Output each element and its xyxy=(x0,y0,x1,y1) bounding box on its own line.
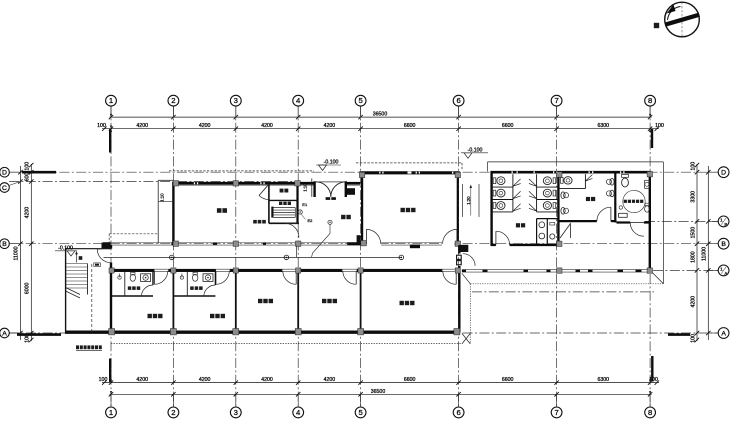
room label bgs2 xyxy=(322,299,326,303)
svg-text:100: 100 xyxy=(691,334,697,343)
south wing north wall solid segments xyxy=(111,269,154,272)
women entrance door xyxy=(496,231,510,245)
svg-text:3300: 3300 xyxy=(691,191,697,203)
accessible basin xyxy=(645,180,650,188)
entrance double door left leaf xyxy=(316,182,331,197)
west wall axis2 xyxy=(172,182,174,245)
svg-text:1: 1 xyxy=(109,408,113,417)
axis bubble B right xyxy=(708,243,718,245)
svg-text:4200: 4200 xyxy=(136,123,148,129)
women mop stalls walls xyxy=(537,218,559,220)
axis bubble 5 top xyxy=(360,106,362,117)
stair up arrow xyxy=(76,253,78,263)
axis 3 vertical xyxy=(235,106,237,407)
svg-text:3: 3 xyxy=(234,96,238,105)
floor drain room2 xyxy=(180,276,183,279)
accessible door xyxy=(630,223,644,237)
axis bubble 8 top xyxy=(649,106,651,117)
room label xiuxishi1 xyxy=(148,314,152,318)
office1 door xyxy=(283,271,296,284)
right dim segment line xyxy=(696,164,698,341)
axis bubble C left xyxy=(9,182,21,186)
svg-text:4200: 4200 xyxy=(691,296,697,308)
stair west wall xyxy=(65,248,67,333)
svg-text:D: D xyxy=(2,170,7,177)
women toilets right xyxy=(553,178,556,184)
entrance pier black xyxy=(347,188,355,195)
entrance double door right leaf xyxy=(331,182,346,197)
thick axis end bars xyxy=(22,171,56,174)
men urinals mid xyxy=(610,179,614,186)
svg-text:A: A xyxy=(2,330,7,337)
north arrow arc arrow xyxy=(668,7,681,21)
svg-text:3: 3 xyxy=(234,408,238,417)
washbasin room1 xyxy=(141,274,151,282)
roof corner diagonals xyxy=(651,272,663,284)
svg-text:100: 100 xyxy=(655,123,664,129)
accessible wc right xyxy=(645,203,649,205)
room label bei xyxy=(654,23,659,28)
men entrance door xyxy=(597,207,611,221)
svg-text:6600: 6600 xyxy=(502,123,514,129)
eave dashed line north wing right xyxy=(356,162,462,164)
svg-text:1:20: 1:20 xyxy=(466,196,471,205)
svg-text:8: 8 xyxy=(648,408,652,417)
bottom segment dim line xyxy=(102,382,659,384)
wing top wall xyxy=(491,171,652,174)
axis bubble 8 bottom xyxy=(649,394,651,407)
axis bubble D right xyxy=(708,171,718,173)
svg-text:D: D xyxy=(721,170,726,177)
west end wall of wing corridor xyxy=(460,245,468,252)
svg-text:B: B xyxy=(721,241,726,248)
svg-text:4200: 4200 xyxy=(324,123,336,129)
axis bubble 1 bottom xyxy=(110,394,112,407)
south wing east wall axis6 xyxy=(458,245,460,253)
top total dim line 36500 xyxy=(110,116,652,118)
north wall D axis (axis5-axis6) xyxy=(360,171,460,174)
svg-text:100: 100 xyxy=(97,123,106,129)
columns south wing north wall xyxy=(109,268,114,273)
svg-text:2: 2 xyxy=(171,96,175,105)
archive room door to hall xyxy=(285,223,299,237)
door tag box at stair xyxy=(94,263,101,267)
top segment dim line xyxy=(102,128,659,130)
ensuite bathroom room2 walls xyxy=(173,295,215,297)
axis bubble 2 bottom xyxy=(172,394,174,407)
corridor drain pipe line xyxy=(104,256,402,258)
svg-text:8: 8 xyxy=(648,96,652,105)
wall edge thick bar axis8 top xyxy=(651,129,653,148)
svg-text:A: A xyxy=(721,330,726,337)
south wing north wall thin lines xyxy=(111,268,459,270)
right dim total line xyxy=(707,166,709,340)
corridor north wall B axis thin lines xyxy=(103,242,459,244)
women stall partitions right xyxy=(537,186,559,188)
wing east wall xyxy=(649,171,651,272)
room label shang xyxy=(79,256,83,260)
axis bubble B left xyxy=(9,243,20,245)
stair flight side wall xyxy=(87,264,89,295)
svg-text:100: 100 xyxy=(25,162,31,171)
stair break line xyxy=(66,288,80,295)
axis 1 vertical xyxy=(110,106,112,407)
axis bubble A left xyxy=(9,332,20,334)
NW canopy dashed corner xyxy=(109,233,158,235)
svg-text:1:10: 1:10 xyxy=(303,183,308,192)
axis bubble 1/B right xyxy=(708,220,718,222)
ramp 1:20 xyxy=(462,184,464,217)
accessible baby bed xyxy=(619,213,628,217)
eave dashed line north wing left xyxy=(169,170,314,172)
svg-text:4200: 4200 xyxy=(136,377,148,383)
west wall axis1 xyxy=(110,245,112,249)
wall edge thick bar axis8 bottom xyxy=(651,356,653,382)
svg-text:6300: 6300 xyxy=(598,377,610,383)
svg-text:5: 5 xyxy=(358,408,362,417)
entrance mat steps xyxy=(326,197,331,200)
bottom total dim line 36500 xyxy=(110,393,652,395)
svg-text:7: 7 xyxy=(554,408,558,417)
axis bubble 3 bottom xyxy=(235,394,237,407)
room label weishengjian2 xyxy=(190,286,194,290)
women stall front left xyxy=(512,174,514,212)
svg-text:1: 1 xyxy=(109,96,113,105)
interior walls between south rooms xyxy=(172,272,174,332)
women bottom wall xyxy=(491,244,496,246)
svg-text:6000: 6000 xyxy=(25,283,31,295)
toilet room2 xyxy=(193,274,198,281)
axis bubble 3 top xyxy=(235,106,237,117)
washbasin room2 xyxy=(203,274,213,282)
axis 2 vertical xyxy=(172,106,174,407)
women-men dividing wall axis7 xyxy=(557,172,559,245)
drain branch vertical xyxy=(296,246,298,258)
axis D horizontal xyxy=(9,171,718,173)
women stall doors right V xyxy=(529,179,537,186)
accessible bottom wall xyxy=(617,221,631,223)
svg-text:6: 6 xyxy=(456,96,460,105)
men urinals west wall xyxy=(561,192,565,199)
room label kufang-big xyxy=(217,208,222,213)
note text under stair xyxy=(76,345,79,349)
room label xiuxishi2 xyxy=(210,314,214,318)
axis bubble 1/A right xyxy=(708,269,718,271)
axis bubble 1 top xyxy=(110,106,112,117)
small storage room walls xyxy=(268,184,270,224)
office west wall axis5 xyxy=(361,173,363,244)
room label nance xyxy=(586,197,590,201)
svg-text:2: 2 xyxy=(171,408,175,417)
wing west wall xyxy=(490,171,492,245)
svg-text:6300: 6300 xyxy=(598,123,610,129)
ramp 1:10 strip west of axis2 xyxy=(157,180,159,243)
room2 door xyxy=(216,271,229,284)
svg-text:4200: 4200 xyxy=(199,377,211,383)
room label bangongshi-n xyxy=(401,208,405,212)
axis bubble 7 top xyxy=(556,106,558,117)
svg-text:4200: 4200 xyxy=(261,123,273,129)
svg-text:600: 600 xyxy=(25,172,31,181)
accessible toilet WC xyxy=(622,175,629,178)
office3 door xyxy=(443,271,456,284)
axis C horizontal xyxy=(9,181,300,183)
axis A horizontal xyxy=(9,332,718,334)
svg-text:1:10: 1:10 xyxy=(160,193,165,202)
axis bubble 4 bottom xyxy=(297,394,299,407)
corridor north wall solid segments xyxy=(103,242,111,245)
columns south wall xyxy=(109,329,115,335)
svg-text:4200: 4200 xyxy=(261,377,273,383)
wall edge thick bar axis1 top xyxy=(109,129,111,153)
room label bgs3 xyxy=(400,301,404,305)
columns right wing xyxy=(557,172,562,177)
svg-text:7: 7 xyxy=(554,96,558,105)
room label nvce xyxy=(516,223,520,227)
ensuite door room1 xyxy=(141,285,153,297)
room label weishengjian1 xyxy=(128,286,132,290)
room label midi xyxy=(279,202,282,205)
svg-text:-0.100: -0.100 xyxy=(324,160,339,166)
floor drain room1 xyxy=(118,276,121,279)
office2 door xyxy=(343,271,356,284)
black pier west of axis5 at B wall xyxy=(357,235,361,243)
north wall C axis (axis2-axis5) xyxy=(172,182,314,185)
axis 4 vertical xyxy=(297,106,299,407)
toilet room1 xyxy=(130,274,135,281)
axis bubble 7 bottom xyxy=(556,394,558,407)
svg-text:6600: 6600 xyxy=(502,377,514,383)
svg-text:100: 100 xyxy=(691,162,697,171)
office door east xyxy=(443,229,457,243)
svg-text:E2: E2 xyxy=(308,218,314,223)
svg-text:E1: E1 xyxy=(302,202,308,207)
svg-text:1500: 1500 xyxy=(691,227,697,239)
svg-text:4200: 4200 xyxy=(199,123,211,129)
svg-text:100: 100 xyxy=(99,377,108,383)
stair door pier black xyxy=(102,243,111,249)
south corridor wall thin lines xyxy=(462,269,651,271)
stair treads xyxy=(66,263,88,265)
axis B horizontal xyxy=(9,243,718,245)
window slits xyxy=(143,172,453,334)
axis 6 vertical xyxy=(458,106,460,407)
svg-text:5: 5 xyxy=(358,96,362,105)
wall edge thick bar axis1 bottom xyxy=(109,359,111,383)
entrance ramp 1:10 xyxy=(311,179,313,197)
svg-text:6600: 6600 xyxy=(404,123,416,129)
men-accessible dividing wall xyxy=(614,172,616,222)
columns north wing xyxy=(173,181,178,186)
svg-text:C: C xyxy=(2,185,7,192)
axis 7 vertical xyxy=(556,106,558,407)
axis 5 vertical xyxy=(360,106,362,407)
north arrow circle xyxy=(665,2,700,37)
svg-text:6: 6 xyxy=(456,408,460,417)
room label kufang-small xyxy=(280,189,284,193)
svg-text:36500: 36500 xyxy=(373,112,388,118)
svg-text:4: 4 xyxy=(296,408,301,417)
office door west xyxy=(366,229,380,243)
north arrow band xyxy=(665,13,700,27)
stair door xyxy=(97,249,111,263)
eave dashed south of south wing xyxy=(111,343,462,345)
svg-text:36500: 36500 xyxy=(371,389,386,395)
corridor door axis6 xyxy=(463,254,475,266)
north arrow dashed diameter xyxy=(681,2,683,37)
stair north wall xyxy=(66,248,102,250)
axis 8 vertical xyxy=(649,106,651,407)
office east wall axis6 xyxy=(457,173,459,244)
axis bubble D left xyxy=(9,171,20,173)
room label dangan xyxy=(253,220,257,224)
axis 1/A horizontal xyxy=(653,269,718,271)
ensuite bathroom room1 walls xyxy=(111,295,153,297)
axis bubble 6 top xyxy=(458,106,460,117)
svg-text:4200: 4200 xyxy=(25,207,31,219)
site line horizontal xyxy=(472,291,654,293)
room label bgs1 xyxy=(258,299,262,303)
svg-text:11000: 11000 xyxy=(702,247,708,261)
men bottom wall xyxy=(558,220,596,222)
svg-text:1800: 1800 xyxy=(691,251,697,263)
women stall front right xyxy=(536,174,538,212)
accessible turning circle xyxy=(623,190,645,212)
women stall doors left V xyxy=(513,179,521,186)
roof outline right wing xyxy=(488,161,664,163)
axis bubble A right xyxy=(708,332,718,334)
south wall thick xyxy=(65,331,460,334)
squat pans xyxy=(539,222,545,228)
south corridor wall solid segments xyxy=(483,270,488,272)
axis bubble 4 top xyxy=(297,106,299,117)
women toilets left xyxy=(493,178,496,184)
small storage door xyxy=(259,184,269,195)
svg-text:4200: 4200 xyxy=(324,377,336,383)
axis 1/B horizontal xyxy=(645,220,718,222)
archive shelving xyxy=(271,207,273,218)
svg-text:B: B xyxy=(724,222,727,227)
left dim segment line xyxy=(30,164,32,341)
axis bubble 2 top xyxy=(172,106,174,117)
100-dim arrowheads xyxy=(110,114,651,394)
men stall top-left xyxy=(558,188,585,190)
stair dashed landing line xyxy=(91,264,93,332)
entrance jamb walls xyxy=(313,181,315,197)
svg-text:A: A xyxy=(724,271,727,276)
room label menting xyxy=(341,215,345,219)
left dim total line xyxy=(19,166,21,340)
lobby door at axis7 xyxy=(560,224,570,238)
room label disan xyxy=(624,200,627,203)
svg-text:4: 4 xyxy=(296,96,301,105)
dimension ticks xyxy=(109,115,113,119)
ensuite door room2 xyxy=(204,285,216,297)
svg-text:11000: 11000 xyxy=(14,246,20,260)
axis bubble 5 bottom xyxy=(360,394,362,407)
roof dotted south edge xyxy=(470,283,663,285)
women stall partitions left xyxy=(492,186,513,188)
men floor drain and basin xyxy=(619,206,622,209)
axis bubble 6 bottom xyxy=(458,394,460,407)
svg-text:B: B xyxy=(2,241,7,248)
svg-text:6600: 6600 xyxy=(404,377,416,383)
room1 door xyxy=(154,271,167,284)
